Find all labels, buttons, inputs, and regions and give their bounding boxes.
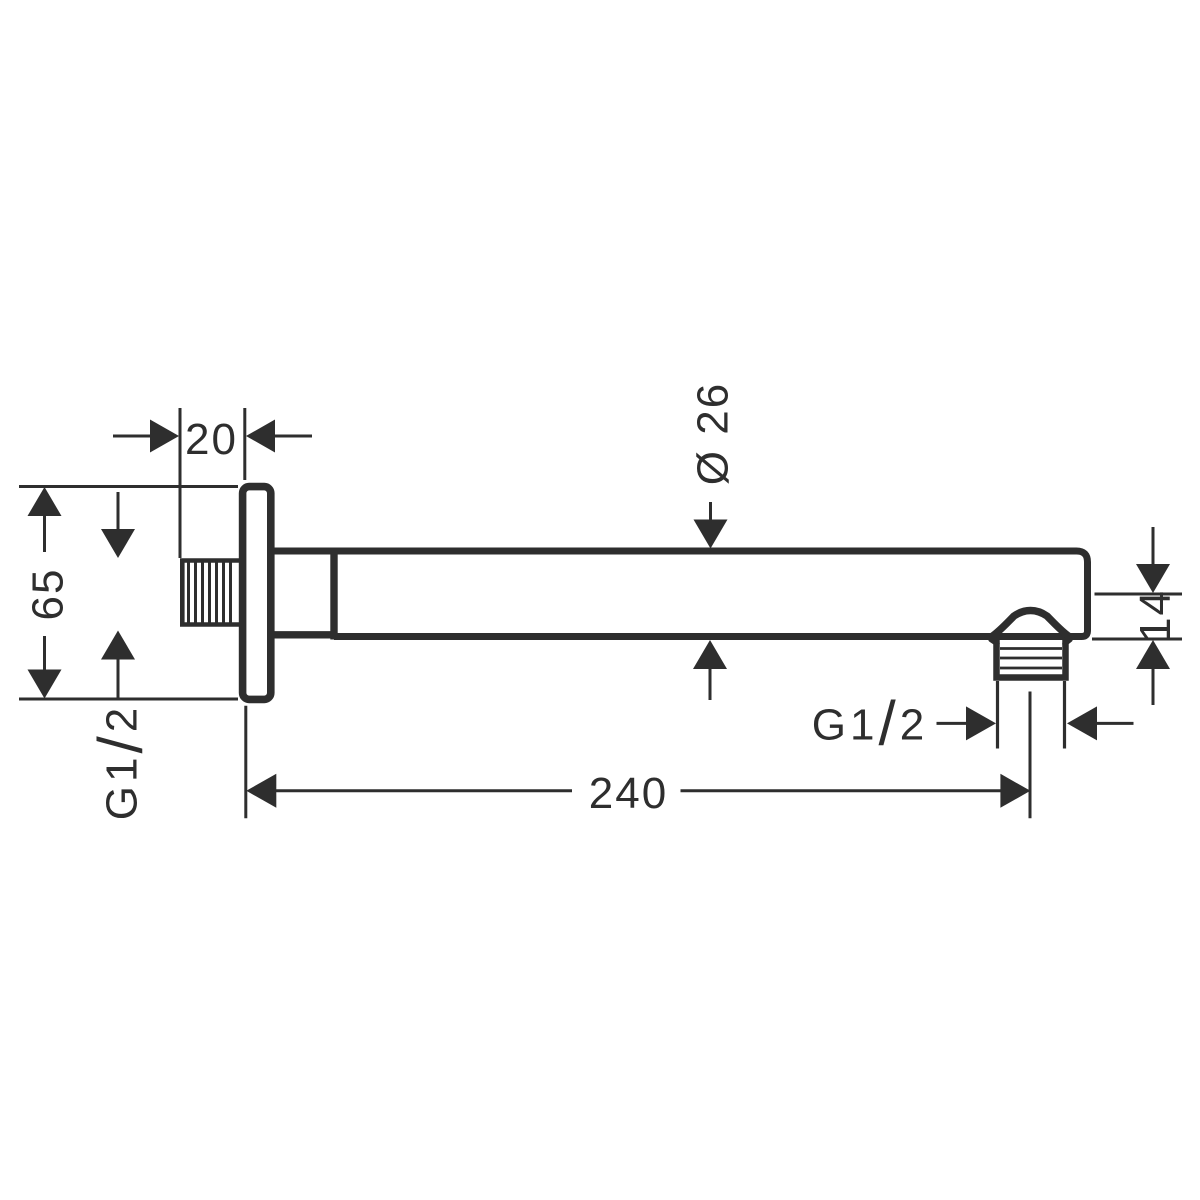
dim 240: right arrow xyxy=(681,789,1002,792)
dim 65: bottom extension line xyxy=(19,698,238,701)
svg-text:G1/2: G1/2 xyxy=(87,704,156,820)
shower arm tube outline xyxy=(274,551,1088,637)
dim 14: down arrow xyxy=(1152,527,1155,565)
outlet thread hatch lines xyxy=(1000,649,1062,669)
outlet pipe walls xyxy=(996,681,999,749)
dim 14: up arrow xyxy=(1136,640,1170,669)
dim 240: left extension line (wall plane) xyxy=(244,706,247,819)
dim D26: down arrow to arm top xyxy=(709,502,712,520)
wall flange (escutcheon, side view) xyxy=(243,487,271,700)
dim 20: extension line right xyxy=(243,408,246,480)
arm joint line xyxy=(330,548,337,640)
wall thread hatch lines xyxy=(189,561,231,624)
dome left foot xyxy=(991,640,997,644)
dim 65: top extension line xyxy=(19,485,238,488)
dome right foot xyxy=(1065,640,1070,644)
svg-text:G1/2: G1/2 xyxy=(812,689,928,758)
dim 14: bottom extension line xyxy=(1092,638,1182,641)
dim 65: up arrow xyxy=(28,487,62,516)
dim G1/2 wall: up arrow xyxy=(101,631,135,660)
outlet thread G1/2 xyxy=(997,638,1066,678)
dim 20: extension line left xyxy=(179,408,182,558)
dim 20: left arrow xyxy=(113,435,151,438)
svg-text:Ø 26: Ø 26 xyxy=(689,382,738,485)
dim 240: outlet centerline extension xyxy=(1029,692,1032,819)
dim G1/2 outlet: left-pointing arrow xyxy=(1067,706,1097,740)
wall-side threaded pipe G1/2 xyxy=(182,561,240,625)
dim G1/2 wall: down arrow xyxy=(117,492,120,529)
svg-text:240: 240 xyxy=(589,769,668,818)
dim G1/2 outlet: right-pointing arrow xyxy=(937,722,968,725)
svg-text:65: 65 xyxy=(24,568,73,621)
outlet dome (hose-nut top) xyxy=(991,611,1071,638)
dim 20: right arrow xyxy=(246,420,275,453)
dim D26: up arrow to arm bottom xyxy=(693,640,727,669)
arm ferrule bottom edge xyxy=(274,631,334,638)
svg-text:14: 14 xyxy=(1131,589,1180,642)
dim 14: top extension line xyxy=(1095,593,1183,596)
svg-text:20: 20 xyxy=(185,415,238,464)
dim 65: down arrow xyxy=(43,636,46,670)
dim 240: left arrow xyxy=(246,774,276,808)
